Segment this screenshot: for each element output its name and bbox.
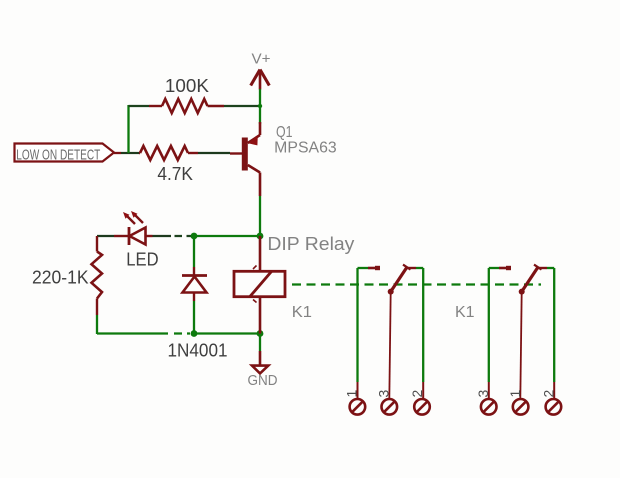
- wire LED row left: [97, 235, 114, 237]
- wire 4.7K right to Q1 base: [198, 152, 230, 154]
- wire flag to node: [114, 152, 121, 154]
- wire dashed bottom: [174, 332, 190, 334]
- wire bottom row left: [97, 332, 168, 334]
- svg-text:4.7K: 4.7K: [157, 163, 193, 184]
- wire dashed LED to diode node: [175, 235, 192, 237]
- contact group 1: [344, 265, 430, 415]
- resistor R2 4.7K: [139, 146, 198, 160]
- wire pivot to terminal 3: [389, 292, 390, 400]
- wire right vertical to terminal 2: [553, 268, 555, 382]
- svg-text:1N4001: 1N4001: [168, 340, 228, 361]
- dashed linkage line: [292, 283, 541, 285]
- junction diode bottom node: [191, 330, 198, 337]
- svg-text:100K: 100K: [165, 75, 210, 96]
- transistor Q1: [230, 122, 260, 196]
- svg-text:1: 1: [507, 390, 523, 398]
- svg-text:MPSA63: MPSA63: [274, 140, 337, 157]
- wire 100K left: [129, 105, 150, 107]
- wire bottom row right: [194, 332, 260, 334]
- resistor R3 220-1K: [92, 236, 103, 315]
- junction relay node: [257, 233, 264, 240]
- svg-text:K1: K1: [455, 304, 475, 321]
- wire Q1 collector to relay node: [259, 196, 261, 236]
- wire left vertical to terminal 3: [488, 268, 490, 382]
- wire 4.7K left: [130, 152, 139, 154]
- terminal 1: [350, 399, 366, 415]
- svg-text:3: 3: [376, 390, 392, 398]
- wire dark segment LED to dash: [153, 235, 172, 237]
- svg-text:220-1K: 220-1K: [32, 267, 89, 288]
- svg-text:LED: LED: [126, 249, 158, 270]
- svg-text:K1: K1: [292, 304, 312, 321]
- wire diode node to relay node: [194, 235, 260, 237]
- LED D1: [114, 211, 153, 245]
- wire top left horizontal: [489, 267, 499, 269]
- wire top right: [538, 267, 547, 269]
- terminal 2: [546, 399, 562, 415]
- terminal 2: [414, 399, 430, 415]
- terminal 3: [481, 399, 497, 415]
- wire right vertical to terminal 2: [422, 268, 424, 382]
- svg-text:DIP Relay: DIP Relay: [267, 233, 355, 254]
- NC contact stub: [499, 267, 511, 270]
- wire pivot to terminal 1: [520, 292, 521, 400]
- wire top right: [407, 267, 416, 269]
- svg-text:GND: GND: [248, 373, 278, 389]
- terminal 1: [513, 399, 529, 415]
- terminal 3: [382, 399, 398, 415]
- svg-text:3: 3: [475, 390, 491, 398]
- wire 100K right to V+ column: [224, 105, 260, 107]
- wire diode bottom: [193, 301, 195, 334]
- switch arm K1 contact: [391, 267, 407, 291]
- svg-text:1: 1: [344, 390, 360, 398]
- wire V+ to Q1 emitter: [259, 89, 261, 124]
- diode D2 1N4001: [182, 267, 207, 301]
- resistor R1 100K: [149, 99, 224, 113]
- relay coil K1: [234, 236, 285, 334]
- junction diode top node: [191, 233, 198, 240]
- svg-text:2: 2: [409, 390, 425, 398]
- ground GND: [248, 334, 278, 390]
- junction at V+ column: [258, 104, 262, 108]
- wire diode top: [193, 236, 195, 267]
- wire left vertical to terminal 1: [356, 268, 358, 382]
- wire vertical between 100K and 4.7K rows: [127, 105, 129, 153]
- svg-text:LOW ON DETECT: LOW ON DETECT: [16, 147, 100, 164]
- wire 220-1K bottom: [96, 315, 98, 334]
- svg-text:2: 2: [541, 390, 557, 398]
- power V+: [251, 51, 271, 90]
- contact group 2: [475, 265, 561, 415]
- switch arm K1 contact: [522, 267, 538, 291]
- junction gnd node: [257, 330, 264, 337]
- svg-text:V+: V+: [252, 51, 271, 68]
- NC contact stub: [368, 267, 380, 270]
- wire top left horizontal: [358, 267, 369, 269]
- flag LOW ON DETECT: [15, 144, 115, 164]
